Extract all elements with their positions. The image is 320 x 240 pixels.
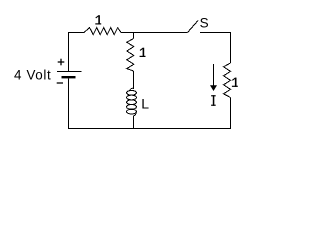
svg-text:L: L xyxy=(141,96,149,112)
svg-text:4 Volt: 4 Volt xyxy=(14,67,51,82)
svg-text:S: S xyxy=(200,16,209,31)
